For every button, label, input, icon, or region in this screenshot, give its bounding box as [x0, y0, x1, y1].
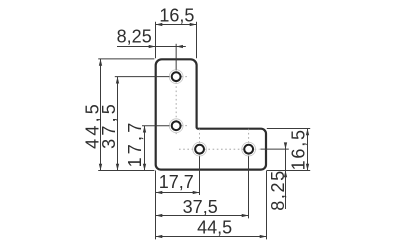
- dim 8,25 top: dimension line: [117, 46, 186, 48]
- arrows dim 17,7 left: [143, 126, 146, 133]
- dim 44,5 bottom: dimension line: [156, 236, 267, 238]
- hole C: [195, 145, 204, 154]
- hole B: [172, 121, 181, 130]
- dim 17,7 left: dimension line: [144, 126, 146, 171]
- bottom dims: right extension line: [266, 171, 268, 240]
- centerline horizontal through holes C,D: [179, 148, 260, 150]
- svg-text:16,5: 16,5: [159, 6, 194, 26]
- dim 44,5 left: dimension line: [100, 59, 102, 171]
- svg-text:8,25: 8,25: [117, 27, 152, 47]
- dim 8,25 right: dimension line: [285, 143, 287, 209]
- plate outline (L-shaped corner bracket): [156, 59, 266, 169]
- dim 16,5 right: dimension line: [307, 129, 309, 171]
- dim 8,25 top: extension (hole A centerline up): [175, 44, 177, 70]
- centerline horizontal hole A: [169, 76, 188, 78]
- arrows dim 17,7 bottom: [156, 191, 163, 194]
- svg-text:37,5: 37,5: [99, 101, 119, 149]
- hole A: [172, 72, 181, 81]
- centerline horizontal hole B: [169, 125, 188, 127]
- dim 16,5 top: extension lines: [155, 22, 157, 59]
- dim 17,7 left: extension (hole B centerline left): [142, 125, 169, 127]
- svg-text:17,7: 17,7: [125, 120, 145, 168]
- centerline vertical hole D: [248, 129, 250, 157]
- arrows dim 37,5 left: [116, 77, 119, 84]
- dim 8,25 right: extension (hole D centerline right): [260, 148, 288, 150]
- hole A thread circle: [169, 70, 183, 84]
- hole B thread circle: [169, 119, 183, 133]
- dim 44,5 left: extension lines: [98, 58, 154, 60]
- right dims: bottom extension line: [267, 170, 310, 172]
- arrows dim 16,5 right: [306, 129, 309, 136]
- svg-text:16,5: 16,5: [288, 128, 308, 170]
- arrows dim 8,25 right (outside): [284, 142, 287, 149]
- svg-text:8,25: 8,25: [268, 169, 288, 210]
- svg-text:44,5: 44,5: [197, 218, 232, 238]
- arrows dim 44,5 bottom: [156, 235, 163, 238]
- svg-text:37,5: 37,5: [183, 197, 218, 217]
- hole C thread circle: [193, 142, 207, 156]
- arrows dim 8,25 top (outside): [149, 45, 156, 48]
- bottom dims: hole C extension down: [199, 156, 201, 195]
- hole D: [244, 145, 253, 154]
- svg-text:17,7: 17,7: [159, 172, 194, 192]
- dim 37,5 bottom: dimension line: [156, 215, 249, 217]
- dim 17,7 bottom: dimension line: [156, 192, 200, 194]
- centerline vertical through holes A,B: [175, 70, 177, 136]
- dim 37,5 left: extension (hole A centerline left): [115, 76, 170, 78]
- right dims: top extension line: [267, 128, 310, 130]
- hole D thread circle: [242, 142, 256, 156]
- dim 16,5 top: dimension line: [156, 24, 197, 26]
- arrows dim 16,5 top: [156, 23, 163, 26]
- bottom dims: hole D extension down: [248, 156, 250, 218]
- centerline vertical hole C: [199, 129, 201, 157]
- arrows dim 37,5 bottom: [156, 214, 163, 217]
- bottom dims: left extension line: [155, 171, 157, 240]
- dim 37,5 left: dimension line: [117, 77, 119, 171]
- arrows dim 44,5 left: [99, 59, 102, 66]
